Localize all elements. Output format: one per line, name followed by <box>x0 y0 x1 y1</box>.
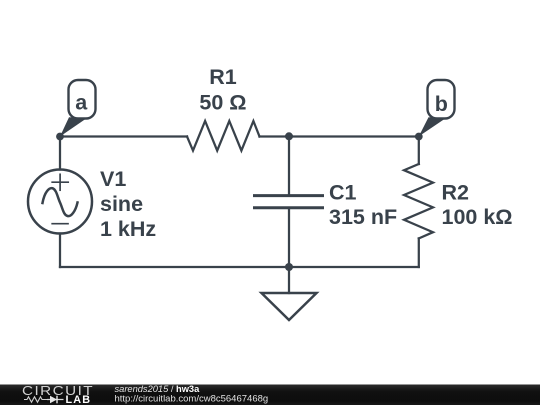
wire: R2 bottom to bottom rail <box>418 238 420 267</box>
footer logo diode <box>47 396 64 404</box>
node label b box <box>428 80 455 119</box>
svg-text:http://circuitlab.com/cw8c5646: http://circuitlab.com/cw8c56467468g <box>115 393 269 404</box>
capacitor C1 <box>255 196 323 208</box>
junction node b <box>415 133 423 141</box>
voltage source V1 <box>28 170 92 234</box>
svg-text:C1: C1 <box>329 181 357 205</box>
footer logo CIRCUIT <box>22 383 94 397</box>
svg-text:100 kΩ: 100 kΩ <box>442 205 513 229</box>
svg-text:315 nF: 315 nF <box>329 205 397 229</box>
wire: node a to R1 left lead <box>60 135 187 137</box>
svg-text:sarends2015 / hw3a: sarends2015 / hw3a <box>115 384 201 394</box>
footer bar <box>0 385 540 405</box>
wire: ground lead <box>288 267 290 293</box>
svg-text:b: b <box>435 92 448 116</box>
svg-text:R1: R1 <box>209 65 237 89</box>
junction at C1 bottom / ground <box>285 263 293 271</box>
svg-text:R2: R2 <box>442 181 470 205</box>
junction at C1 top <box>285 132 293 140</box>
node label a pointer <box>60 117 87 136</box>
svg-text:sine: sine <box>100 192 143 216</box>
svg-text:a: a <box>75 91 88 115</box>
wire: C1 top lead <box>288 137 290 196</box>
wire: R1 right lead to node b <box>260 135 419 137</box>
wire: C1 bottom lead <box>288 208 290 267</box>
svg-text:LAB: LAB <box>66 394 92 405</box>
node label a box <box>69 80 96 119</box>
svg-text:50 Ω: 50 Ω <box>199 91 246 115</box>
junction node a <box>56 133 64 141</box>
wire: node a down to V1 top <box>59 137 61 170</box>
svg-text:V1: V1 <box>100 167 126 191</box>
resistor R2 <box>404 164 433 238</box>
svg-text:1 kHz: 1 kHz <box>100 217 156 241</box>
footer logo resistor squiggle <box>24 397 47 402</box>
wire: V1 bottom to bottom rail <box>59 234 61 268</box>
wire: bottom rail <box>60 266 419 268</box>
node label b pointer <box>419 117 446 136</box>
resistor R1 <box>187 121 260 151</box>
ground <box>262 293 317 320</box>
wire: node b down to R2 <box>418 137 420 165</box>
